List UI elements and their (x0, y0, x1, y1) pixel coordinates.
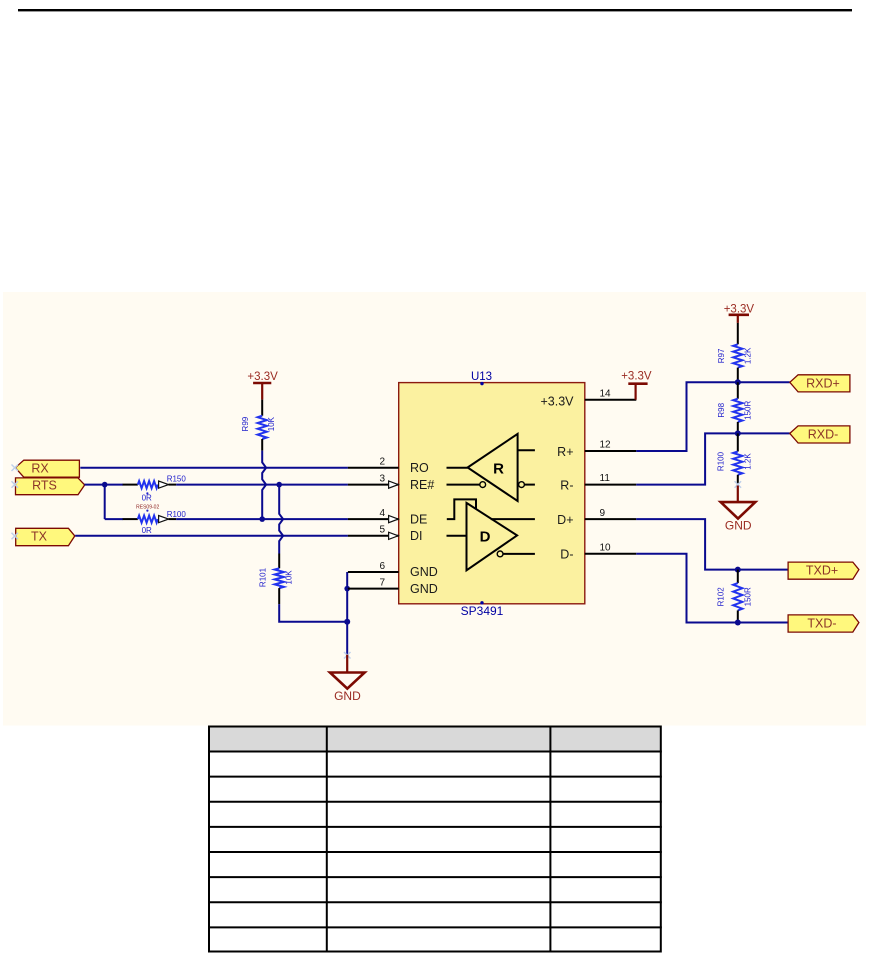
svg-text:R-: R- (560, 479, 573, 493)
pin 12 stub (585, 440, 637, 451)
svg-text:R100: R100 (717, 451, 726, 471)
pin 10 stub (585, 542, 637, 553)
svg-text:D-: D- (560, 548, 573, 562)
svg-text:R150: R150 (167, 475, 187, 484)
table column divider 1 (326, 726, 328, 953)
svg-text:D: D (480, 528, 491, 545)
wire GND rail vertical (346, 572, 348, 655)
designator U13 (471, 371, 492, 385)
svg-text:GND: GND (410, 582, 438, 596)
svg-text:12: 12 (600, 440, 612, 451)
no-ERC marker at RX (12, 465, 19, 472)
svg-text:R102: R102 (716, 587, 725, 607)
table row divider 2 (208, 801, 662, 803)
wire R100 to pin4 (176, 518, 348, 520)
svg-text:RX: RX (31, 461, 49, 475)
svg-text:SP3491: SP3491 (461, 604, 504, 618)
svg-text:TX: TX (31, 529, 48, 543)
svg-text:RTS: RTS (32, 479, 57, 493)
svg-text:1.2K: 1.2K (744, 453, 753, 470)
junction R99/DE (259, 516, 265, 522)
resistor R102 (716, 570, 752, 623)
svg-text:0R: 0R (142, 526, 152, 535)
svg-text:RE#: RE# (410, 478, 434, 492)
wire R150 to pin3 (176, 484, 348, 486)
svg-text:D+: D+ (557, 513, 573, 527)
svg-text:GND: GND (410, 565, 438, 579)
resistor R100 (717, 433, 753, 485)
svg-text:+3.3V: +3.3V (621, 371, 652, 383)
port TXD- (788, 615, 859, 632)
svg-text:150R: 150R (744, 401, 753, 420)
svg-text:R97: R97 (717, 348, 726, 363)
svg-text:DE: DE (410, 512, 427, 526)
svg-text:10K: 10K (285, 570, 294, 585)
svg-text:RXD-: RXD- (808, 427, 839, 441)
junction RXD+ (735, 379, 741, 385)
svg-text:DI: DI (410, 529, 423, 543)
resistor R100 jumper (123, 492, 187, 535)
power +3.3V (R99 pullup) (247, 371, 278, 400)
no-ERC marker at RTS (12, 481, 19, 488)
wire R99 to DE row with hops (262, 451, 266, 519)
port TXD+ (788, 562, 859, 579)
table row divider 5 (208, 876, 662, 878)
svg-text:0R: 0R (142, 493, 152, 502)
wire pin9 to TXD+ (636, 519, 788, 570)
svg-text:+3.3V: +3.3V (540, 395, 574, 409)
port TX (16, 528, 75, 545)
no-ERC marker bottom GND (344, 652, 351, 659)
svg-text:R98: R98 (717, 402, 726, 417)
svg-text:TXD-: TXD- (807, 617, 836, 631)
no-ERC marker right GND (735, 481, 742, 488)
svg-text:6: 6 (379, 561, 385, 572)
pin 14 stub (585, 388, 637, 399)
pin 7 stub (348, 577, 399, 588)
wire RTS to junction (85, 484, 124, 486)
wire pin10 to TXD- (636, 554, 788, 623)
power +3.3V (termination) (724, 304, 755, 323)
wire pin11 to RXD- (636, 433, 790, 484)
table header fill (209, 728, 661, 751)
pin 5 stub (348, 525, 399, 540)
pin 2 stub (348, 457, 399, 468)
resistor R99 (241, 400, 276, 451)
table row divider 3 (208, 826, 662, 828)
op-amp U13 SP3491 transceiver body (399, 383, 585, 604)
ground symbol GND (bottom) (330, 655, 365, 704)
svg-text:RXD+: RXD+ (806, 376, 840, 390)
svg-text:10: 10 (600, 542, 612, 553)
junction RTS (102, 482, 108, 488)
resistor R101 (259, 554, 294, 605)
pin 9 stub (585, 508, 637, 519)
port RX (15, 460, 79, 477)
ground symbol GND (right) (721, 486, 756, 533)
wire junction down to DE branch (104, 485, 106, 519)
svg-text:RES09-02: RES09-02 (136, 505, 159, 511)
pin 3 stub (348, 473, 399, 488)
port RTS (16, 478, 85, 495)
port RXD- (790, 426, 850, 443)
resistor R98 (717, 382, 752, 433)
table row divider 4 (208, 851, 662, 853)
power +3.3V (pin 14) (621, 371, 652, 400)
svg-text:3: 3 (379, 473, 385, 484)
table header divider (208, 751, 662, 753)
wire RE# down to R101 with hops (279, 485, 283, 554)
svg-text:GND: GND (334, 689, 361, 703)
svg-text:R100: R100 (167, 510, 187, 519)
port RXD+ (790, 375, 850, 392)
wire TX net (75, 535, 348, 537)
svg-text:9: 9 (600, 508, 606, 519)
schematic background (3, 292, 866, 726)
svg-text:1.2K: 1.2K (744, 347, 753, 364)
pin 4 stub (348, 508, 399, 523)
svg-text:11: 11 (600, 473, 611, 484)
svg-text:150R: 150R (744, 587, 753, 606)
svg-text:+3.3V: +3.3V (247, 371, 278, 383)
svg-text:U13: U13 (471, 371, 492, 383)
table row divider 7 (208, 926, 662, 928)
svg-text:RO: RO (410, 461, 429, 475)
receiver amplifier R (447, 434, 535, 501)
top horizontal rule (18, 9, 852, 11)
svg-text:14: 14 (600, 388, 612, 399)
svg-text:R101: R101 (259, 567, 268, 587)
svg-text:R99: R99 (241, 416, 250, 431)
svg-text:10K: 10K (267, 416, 276, 431)
pin 11 stub (585, 473, 637, 484)
junction RE#/R101 (276, 482, 282, 488)
wire RX net (80, 467, 348, 469)
no-ERC marker at TX (12, 533, 19, 540)
svg-text:GND: GND (725, 518, 752, 532)
table column divider 2 (549, 726, 551, 953)
junction pin7/GND (344, 586, 350, 592)
junction GND rail (344, 619, 350, 625)
wire pin12 to RXD+ (636, 382, 790, 451)
resistor R97 (717, 323, 752, 382)
wire R101 to ground rail (279, 604, 347, 622)
driver amplifier D (447, 499, 535, 570)
resistor R150 (123, 475, 187, 503)
svg-text:R: R (493, 460, 504, 477)
junction TXD- (735, 620, 741, 626)
svg-text:5: 5 (379, 525, 385, 536)
svg-text:R+: R+ (557, 445, 573, 459)
svg-text:2: 2 (379, 457, 385, 468)
junction RXD- (735, 430, 741, 436)
junction TXD+ (735, 567, 741, 573)
svg-text:TXD+: TXD+ (806, 564, 838, 578)
svg-text:4: 4 (379, 508, 385, 519)
table row divider 6 (208, 901, 662, 903)
svg-text:7: 7 (379, 577, 385, 588)
table outer border (209, 727, 661, 952)
pin 6 stub (348, 561, 399, 572)
part number SP3491 (461, 601, 504, 618)
table row divider 1 (208, 776, 662, 778)
